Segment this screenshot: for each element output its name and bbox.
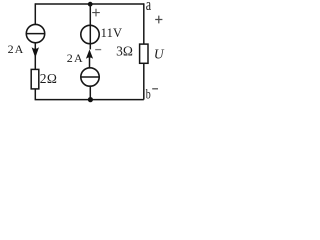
svg-text:U: U [154, 46, 165, 61]
svg-text:2Ω: 2Ω [40, 71, 57, 86]
svg-text:11V: 11V [101, 26, 123, 40]
svg-text:b: b [146, 86, 151, 102]
svg-text:3Ω: 3Ω [116, 44, 133, 59]
svg-text:2A: 2A [8, 42, 25, 56]
svg-text:2A: 2A [67, 51, 84, 65]
svg-text:a: a [146, 0, 152, 15]
